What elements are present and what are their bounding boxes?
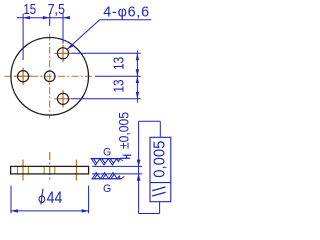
svg-text:4-φ6,6: 4-φ6,6 [103,4,149,20]
svg-text:44: 44 [47,188,63,207]
svg-text:7,5: 7,5 [48,2,65,18]
svg-text:G: G [103,183,111,195]
svg-text:13: 13 [111,57,127,70]
svg-text:13: 13 [111,79,127,92]
svg-text:±0,005: ±0,005 [116,112,131,149]
svg-text:15: 15 [23,2,36,18]
svg-text:0,005: 0,005 [151,141,168,178]
svg-text:G: G [103,147,111,159]
